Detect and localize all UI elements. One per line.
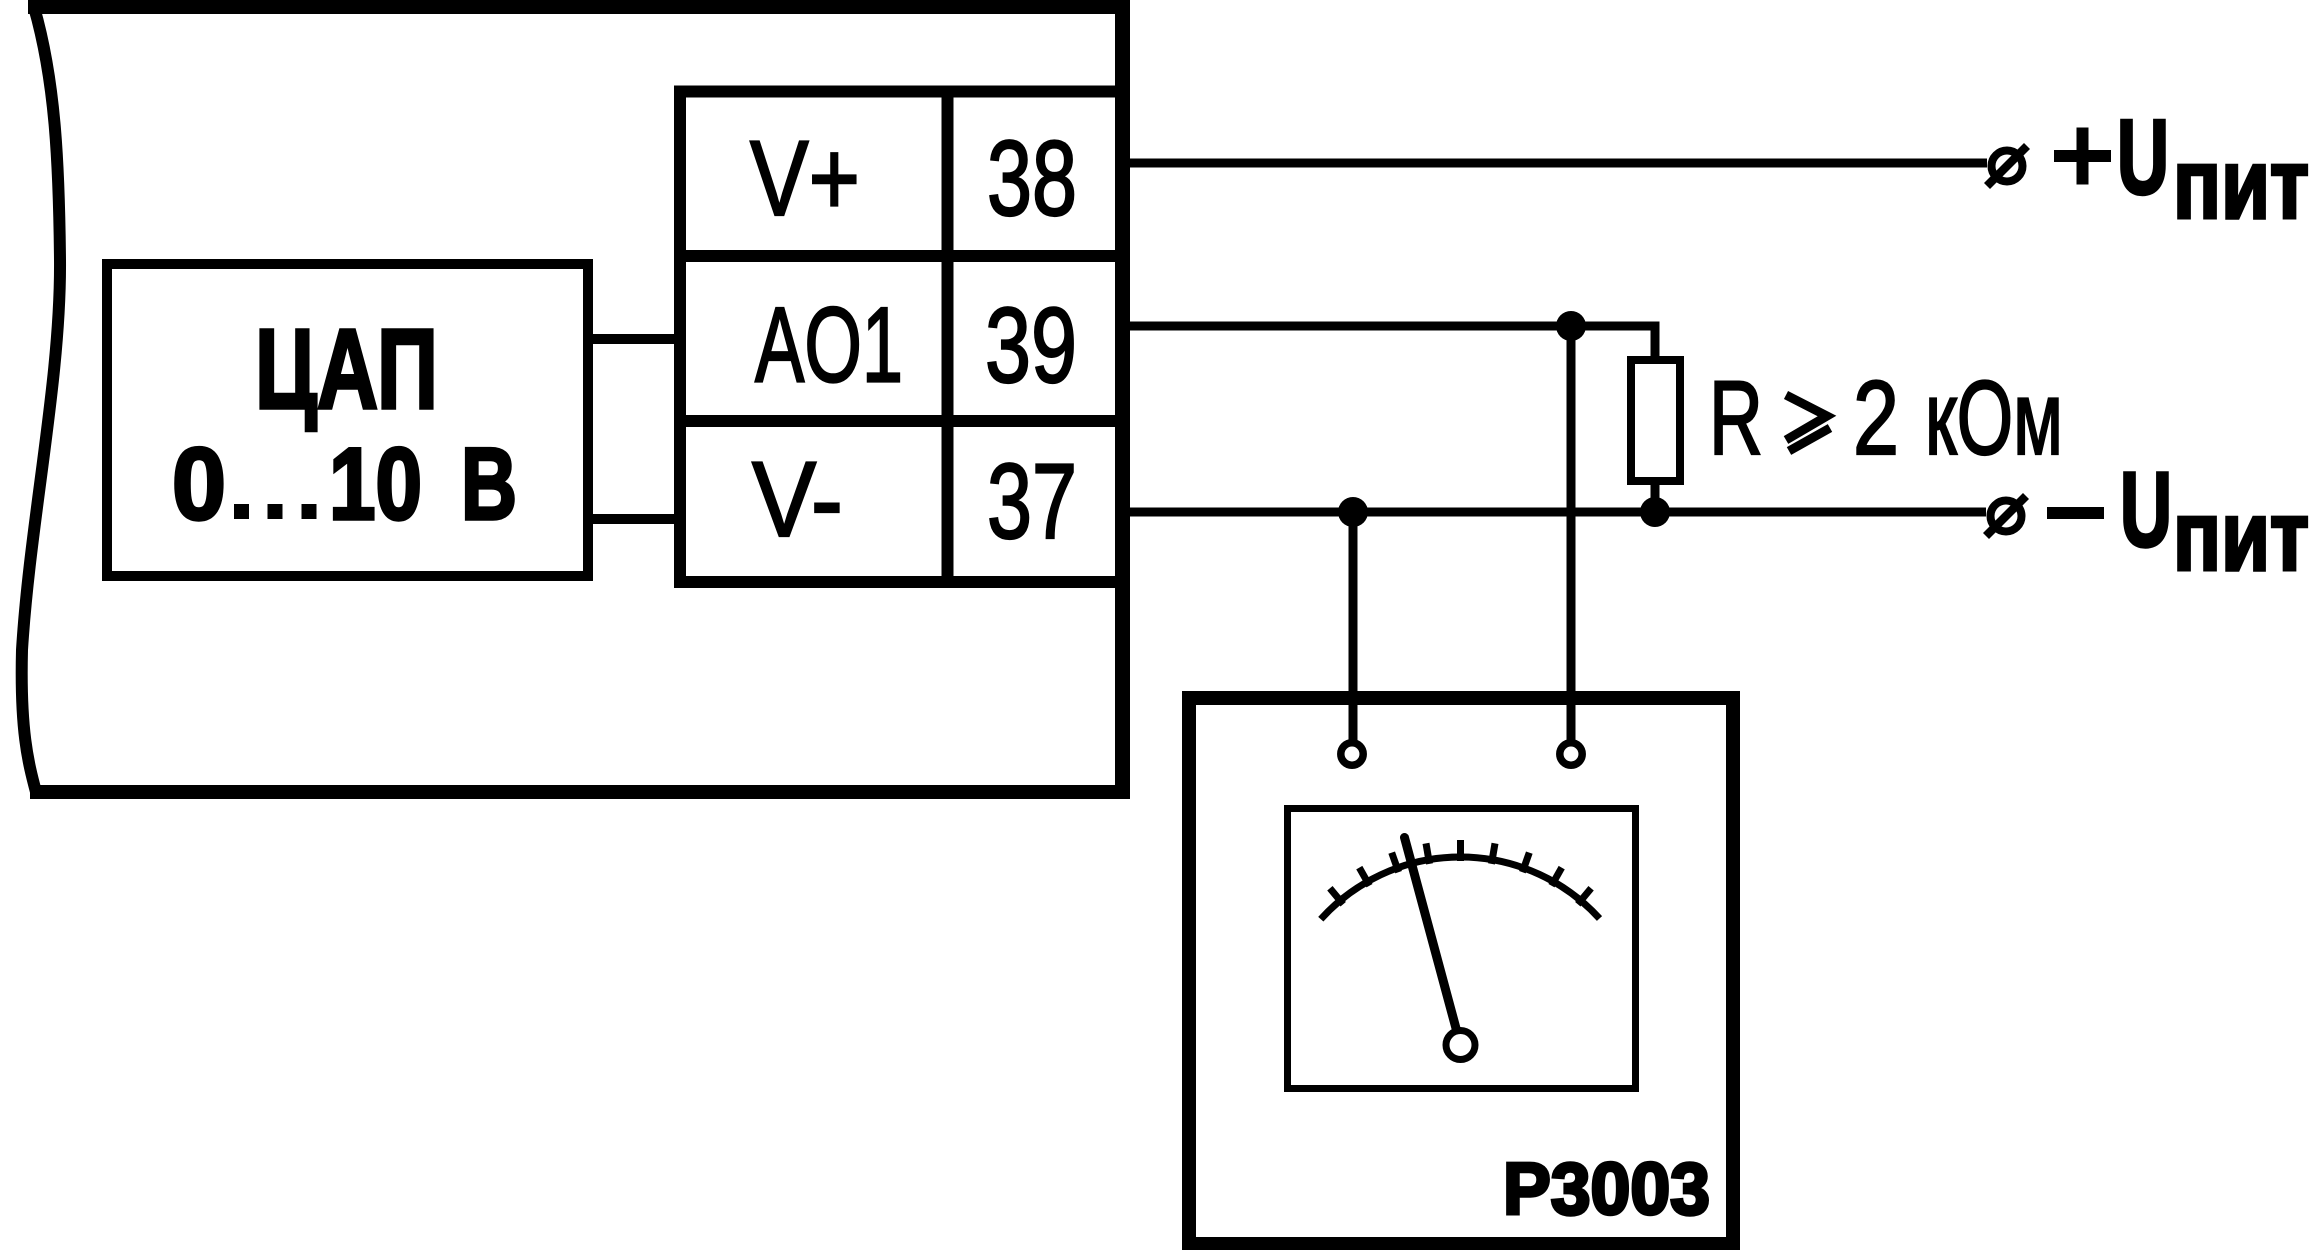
svg-text:R: R <box>1709 360 1763 477</box>
svg-text:37: 37 <box>987 441 1077 561</box>
svg-text:2: 2 <box>1853 360 1899 477</box>
svg-text:U: U <box>2120 451 2172 569</box>
svg-text:кОм: кОм <box>1925 360 2063 477</box>
svg-text:пит: пит <box>2173 128 2309 239</box>
svg-text:10: 10 <box>329 427 422 541</box>
svg-text:38: 38 <box>987 118 1077 238</box>
svg-text:39: 39 <box>985 285 1077 405</box>
svg-text:пит: пит <box>2173 480 2309 591</box>
svg-text:0: 0 <box>172 427 226 541</box>
svg-text:V-: V- <box>752 439 843 559</box>
svg-text:V+: V+ <box>750 118 860 238</box>
svg-text:AO1: AO1 <box>755 285 903 405</box>
svg-text:U: U <box>2117 99 2169 217</box>
svg-text:В: В <box>461 427 517 541</box>
svg-text:Р3003: Р3003 <box>1503 1147 1710 1230</box>
svg-text:ЦАП: ЦАП <box>255 306 438 432</box>
